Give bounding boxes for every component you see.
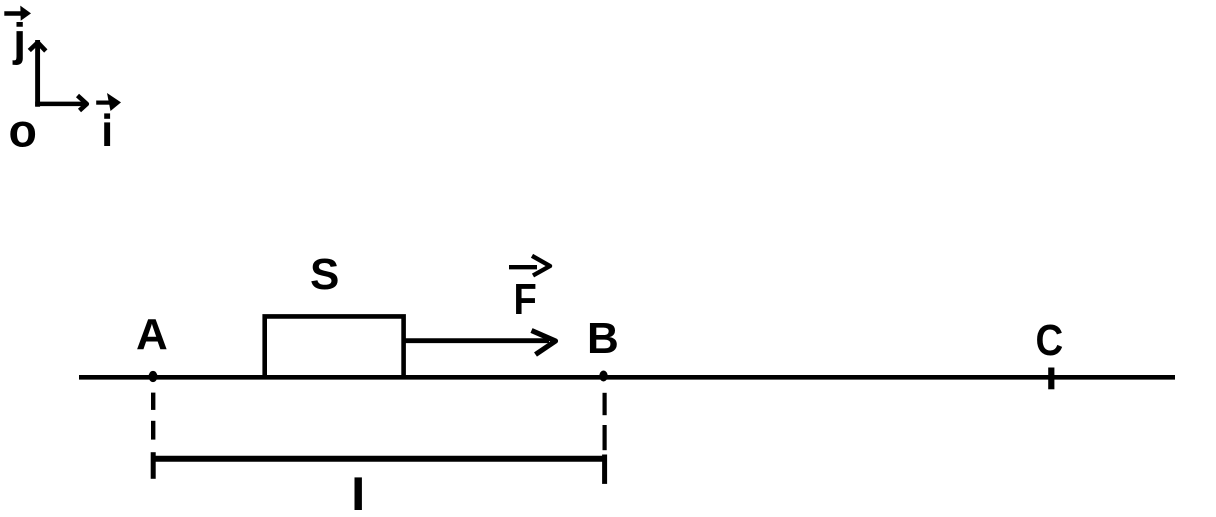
node B dot <box>599 371 607 382</box>
dashed line below B <box>602 393 606 450</box>
svg-text:o: o <box>9 105 37 157</box>
measurement end tick right <box>602 455 607 484</box>
svg-text:j: j <box>12 14 26 66</box>
block S box <box>265 316 404 377</box>
node A dot <box>149 371 158 382</box>
dashed line below A <box>151 393 155 440</box>
ground line <box>79 375 1175 380</box>
measurement end tick left <box>151 452 156 479</box>
svg-text:C: C <box>1036 316 1064 365</box>
measurement line <box>153 456 607 462</box>
svg-text:F: F <box>514 275 537 324</box>
vector arrow over i <box>96 93 121 111</box>
axis label i <box>104 113 110 146</box>
length label l <box>355 477 362 510</box>
force arrow F <box>404 331 556 355</box>
vector arrow over j <box>4 6 31 21</box>
x axis arrow <box>35 96 87 111</box>
svg-text:A: A <box>136 310 168 359</box>
vector arrow over F <box>509 256 550 276</box>
svg-text:B: B <box>587 314 619 363</box>
svg-text:S: S <box>310 250 339 299</box>
y axis arrow <box>29 40 46 107</box>
node C tick <box>1048 368 1054 390</box>
